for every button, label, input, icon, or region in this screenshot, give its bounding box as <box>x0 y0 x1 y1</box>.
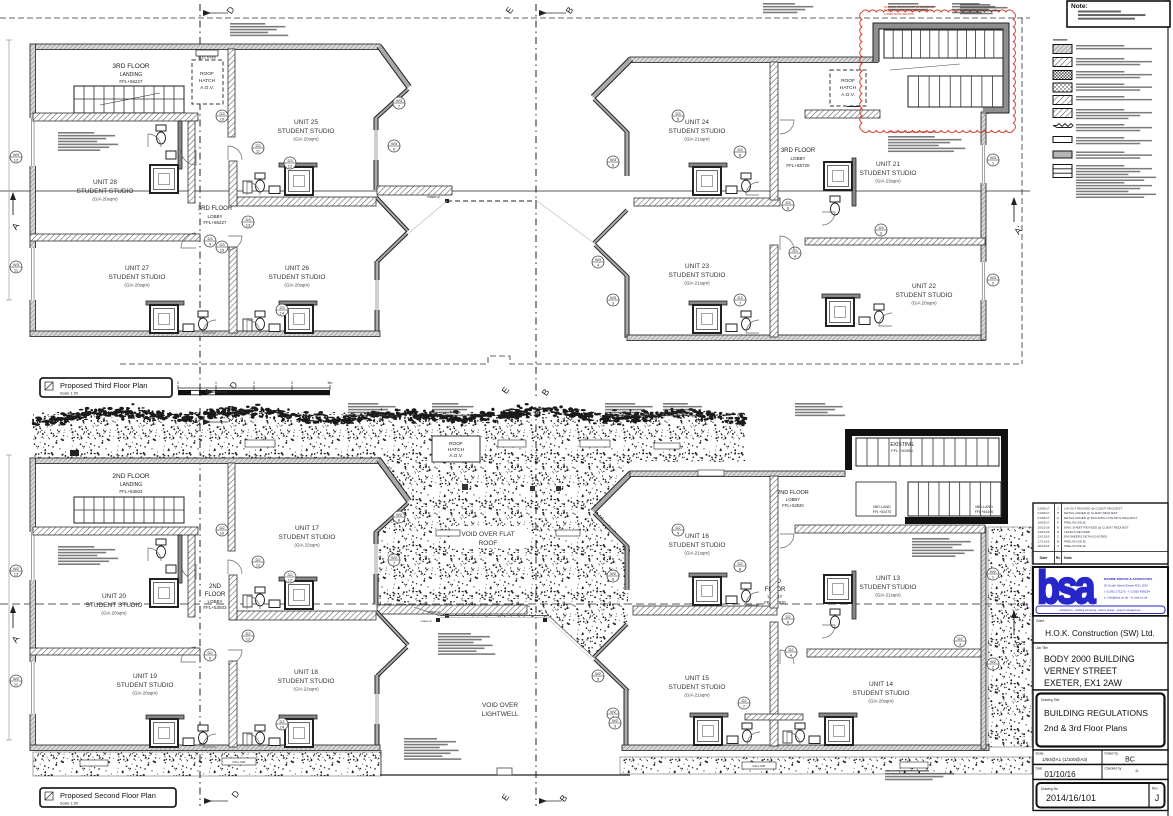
section marker A-prime right second floor <box>1013 611 1015 635</box>
3F units right wall hatched <box>770 62 778 200</box>
3F left block left wall <box>30 44 36 336</box>
logo panel box <box>1033 567 1168 616</box>
svg-text:D2: D2 <box>219 525 225 530</box>
svg-text:2ND FLOOR: 2ND FLOOR <box>777 490 809 496</box>
svg-text:LANDING: LANDING <box>120 72 142 78</box>
fall dir boxes top band <box>245 440 275 447</box>
legend text 2 <box>1076 58 1124 60</box>
svg-text:UNIT 27: UNIT 27 <box>125 265 149 272</box>
3F unit 27 pod <box>146 301 184 305</box>
3F stair enclosure stairs lower flight <box>908 76 1003 107</box>
svg-text:D2: D2 <box>737 561 743 566</box>
svg-text:HATCH: HATCH <box>448 447 465 453</box>
3F unit 26 pod <box>279 301 317 305</box>
svg-text:Scale 1:50: Scale 1:50 <box>60 802 78 806</box>
svg-text:2ND FLOOR: 2ND FLOOR <box>112 473 150 480</box>
2F unit 15 pod <box>690 713 728 717</box>
svg-text:DETAIL ADDED @ CLIENT REQUEST: DETAIL ADDED @ CLIENT REQUEST <box>1064 511 1118 515</box>
legend swatch 1 <box>1053 45 1072 54</box>
3F riser wall bottom segment <box>229 247 237 333</box>
legend swatch 9 <box>1053 151 1072 158</box>
svg-text:STUDENT STUDIO: STUDENT STUDIO <box>860 584 917 591</box>
2F stipple band right side <box>988 527 1032 747</box>
section marker A-prime right third floor <box>1013 198 1015 222</box>
3F lobby hatched wall below stair <box>805 110 880 118</box>
3F left wall window W3-12 <box>30 118 37 166</box>
svg-text:D3: D3 <box>207 236 213 241</box>
3F divider wall units 25-26 east part <box>231 197 376 206</box>
svg-text:HATCH: HATCH <box>840 85 857 91</box>
3F left block bottom wall <box>30 331 380 337</box>
svg-text:UNIT 26: UNIT 26 <box>285 265 309 272</box>
svg-text:STUDENT STUDIO: STUDENT STUDIO <box>86 602 143 609</box>
2F left wall window W2-14 <box>30 532 37 580</box>
3F stair enclosure outer wall <box>876 26 1006 114</box>
svg-text:(GIA 20sqm): (GIA 20sqm) <box>911 301 937 306</box>
3F stair landing <box>74 86 184 113</box>
svg-text:PRELIM ISSUE: PRELIM ISSUE <box>1064 521 1086 525</box>
svg-text:Note: Note <box>1064 556 1072 560</box>
3F right block bottom wall <box>627 335 985 341</box>
svg-text:01/03/17: 01/03/17 <box>1037 516 1049 520</box>
2F circles right block <box>782 613 794 625</box>
svg-text:W3: W3 <box>610 295 617 300</box>
3F annotation stair note <box>58 132 94 134</box>
2F lightwell timber up marks <box>436 618 440 622</box>
2F left wall window W2-13 <box>30 662 37 714</box>
legend text 8 <box>1076 137 1124 139</box>
svg-text:ROOF: ROOF <box>449 441 463 447</box>
3F stair arrow <box>100 93 160 105</box>
legend trailing paragraph <box>1076 182 1124 184</box>
legend swatch 5 <box>1053 96 1072 105</box>
svg-text:UNIT 23: UNIT 23 <box>685 263 709 270</box>
svg-text:UNIT 22: UNIT 22 <box>912 283 936 290</box>
legend swatch 2 <box>1053 58 1072 67</box>
3F unit 21 pod <box>852 158 856 206</box>
svg-text:UNIT 28: UNIT 28 <box>93 179 117 186</box>
svg-text:UNIT 14: UNIT 14 <box>869 681 893 688</box>
svg-text:Date: Date <box>1036 767 1043 771</box>
2F roof hatch AOV box in band <box>432 436 480 462</box>
2F lightwell bottom boundary line <box>380 774 630 776</box>
svg-text:LEVELS REVISED: LEVELS REVISED <box>1064 530 1091 534</box>
3F lobby west wall <box>188 121 195 203</box>
job title section <box>1033 643 1168 690</box>
svg-text:Rv: Rv <box>1056 556 1061 560</box>
2F stipple band bottom right <box>620 757 1032 774</box>
2F lobby west wall <box>188 535 195 617</box>
svg-text:STUDENT STUDIO: STUDENT STUDIO <box>109 274 166 281</box>
svg-text:D2: D2 <box>788 647 794 652</box>
2F left block top wall <box>30 458 380 464</box>
svg-text:Rev: Rev <box>1152 787 1158 791</box>
svg-text:STUDENT STUDIO: STUDENT STUDIO <box>669 272 726 279</box>
svg-text:STUDENT STUDIO: STUDENT STUDIO <box>278 678 335 685</box>
2F left block bay point lower <box>376 611 408 645</box>
3F roof hatch AOV dashed box <box>192 60 223 104</box>
3F right block left bay upper return <box>594 99 628 133</box>
2F wavy dense existing roof band <box>32 403 748 426</box>
svg-text:FFL+56227: FFL+56227 <box>203 220 227 225</box>
third floor plan title box <box>40 378 172 397</box>
2F flat roof annotation bottom <box>404 738 437 740</box>
2F parapet spur wall at section line <box>377 605 527 614</box>
svg-text:PRELIM ISSUE: PRELIM ISSUE <box>1064 539 1086 543</box>
svg-text:FFL+52620: FFL+52620 <box>782 503 804 508</box>
legend text 6 <box>1076 109 1124 111</box>
2F existing stair block heavy walls <box>845 429 1008 524</box>
2F unit 17 pod <box>279 577 317 581</box>
svg-text:0: 0 <box>177 381 179 385</box>
svg-text:12: 12 <box>288 578 293 583</box>
svg-text:A.O.V.: A.O.V. <box>841 92 855 98</box>
svg-text:D3: D3 <box>737 147 743 152</box>
svg-text:BODY 2000 BUILDING: BODY 2000 BUILDING <box>1044 654 1135 664</box>
svg-text:D2: D2 <box>279 719 285 724</box>
2F annotation stair note <box>58 546 94 548</box>
2F window on right wall upper <box>374 544 379 574</box>
2F lobby unit entry door arcs <box>181 564 196 579</box>
svg-text:MID-LAND: MID-LAND <box>975 505 993 509</box>
dashed site boundary top <box>0 17 1030 19</box>
svg-text:e. info@bsa.co.uk - w. bsa.co.: e. info@bsa.co.uk - w. bsa.co.uk <box>1104 596 1148 600</box>
2F unit 18 pod <box>279 715 317 719</box>
svg-text:2: 2 <box>253 381 255 385</box>
svg-text:FFL+55720: FFL+55720 <box>786 163 810 168</box>
svg-text:DETAIL ADDED @ BUILDING CONTRO: DETAIL ADDED @ BUILDING CONTROL REQUEST <box>1064 516 1137 520</box>
3F door circle D3-15 <box>216 241 228 253</box>
left margin dimension line second floor <box>8 455 10 740</box>
3F window circle W3-6 <box>388 140 400 152</box>
svg-text:08/11/16: 08/11/16 <box>1038 544 1050 548</box>
second floor plan title box <box>40 788 176 807</box>
svg-text:W2: W2 <box>13 566 20 571</box>
svg-text:W3: W3 <box>610 157 617 162</box>
3F left block top wall <box>30 44 380 50</box>
legend key title <box>1053 39 1067 41</box>
svg-text:UNIT 25: UNIT 25 <box>294 119 318 126</box>
svg-text:W3: W3 <box>396 98 403 103</box>
svg-text:PROPOSED EUROMATIC BETWEEN: PROPOSED EUROMATIC BETWEEN <box>888 130 936 134</box>
sheet right border <box>1167 0 1169 816</box>
drawing title rounded box <box>1037 694 1165 747</box>
svg-text:Drawing No.: Drawing No. <box>1041 787 1059 791</box>
svg-text:FALL DIR: FALL DIR <box>753 764 767 768</box>
2F lightwell glazing diagonals <box>549 616 628 689</box>
svg-text:EXETER, EX1 2AW: EXETER, EX1 2AW <box>1044 678 1123 688</box>
2F window on right wall lower <box>375 694 380 724</box>
2F divider wall units 17-18 east part <box>231 611 376 620</box>
legend text 7 <box>1076 124 1124 126</box>
svg-text:ELEC RISER: ELEC RISER <box>198 56 217 60</box>
3F revision cloud around stair <box>860 10 1016 132</box>
legend text 10 <box>1076 165 1124 167</box>
3F divider wall units 27-28 <box>30 234 200 241</box>
svg-text:23/03/17: 23/03/17 <box>1037 507 1049 511</box>
grid line D (third floor) <box>199 4 201 400</box>
svg-text:W2: W2 <box>610 709 617 714</box>
3F door circle D3-9 <box>204 235 216 247</box>
svg-text:architecture - building survey: architecture - building surveying - inte… <box>1059 608 1140 612</box>
svg-text:BUILDING REGULATIONS: BUILDING REGULATIONS <box>1044 708 1148 718</box>
section line A-A third floor <box>0 190 1030 192</box>
2F stair landing <box>74 497 184 523</box>
svg-text:16/01/17: 16/01/17 <box>1037 521 1049 525</box>
3F unit 25 pod <box>279 163 317 167</box>
svg-text:Job Title: Job Title <box>1036 646 1048 650</box>
svg-text:H: H <box>1057 511 1059 515</box>
3F right block left bay lower point <box>594 210 627 243</box>
svg-text:UNIT 17: UNIT 17 <box>295 525 319 532</box>
2F right block top wall <box>630 471 845 477</box>
3F roof hatch right dashed box <box>830 70 866 106</box>
2F riser wall <box>228 463 235 551</box>
3F void dashed edge <box>447 200 537 202</box>
svg-text:A.O.V.: A.O.V. <box>200 85 214 91</box>
2F existing stair steps <box>856 438 999 466</box>
scale and drawn row <box>1033 750 1168 765</box>
svg-text:1: 1 <box>215 381 217 385</box>
svg-text:(GIA 23sqm): (GIA 23sqm) <box>875 179 901 184</box>
svg-text:FFL +51950: FFL +51950 <box>891 448 913 453</box>
2F right block right wall <box>981 527 986 749</box>
svg-text:14: 14 <box>280 725 285 730</box>
svg-text:01/10/16: 01/10/16 <box>1044 770 1076 779</box>
svg-text:D3: D3 <box>287 158 293 163</box>
svg-text:D2: D2 <box>675 525 681 530</box>
legend swatch 3 <box>1053 71 1072 80</box>
2F landing lower wall hatched <box>33 527 198 535</box>
2F left block right wall mid <box>374 532 378 604</box>
svg-text:Client: Client <box>1036 619 1044 623</box>
svg-text:FLOOR: FLOOR <box>205 592 226 598</box>
legend swatch 10 <box>1053 165 1072 178</box>
svg-text:Drawn by: Drawn by <box>1105 752 1119 756</box>
note box top right <box>1067 1 1170 27</box>
svg-text:Drawing Title: Drawing Title <box>1041 698 1060 702</box>
svg-text:23/11/16: 23/11/16 <box>1038 535 1050 539</box>
svg-text:LOBBY: LOBBY <box>207 599 222 604</box>
legend swatch 8 <box>1053 137 1072 143</box>
2F annotation stair red note <box>912 538 949 540</box>
svg-text:(GIA 21sqm): (GIA 21sqm) <box>875 593 901 598</box>
svg-text:D3: D3 <box>785 200 791 205</box>
svg-text:21/03/17: 21/03/17 <box>1037 511 1049 515</box>
svg-text:(GIA 21sqm): (GIA 21sqm) <box>684 137 710 142</box>
svg-text:W2: W2 <box>990 569 997 574</box>
svg-text:FALL DIR: FALL DIR <box>233 760 247 764</box>
svg-text:VERNEY STREET: VERNEY STREET <box>1044 666 1118 676</box>
client section <box>1033 616 1168 643</box>
section marker A left third floor <box>12 193 14 215</box>
2F stipple band bottom left <box>33 752 381 776</box>
3F stair up arrow <box>890 64 960 70</box>
3F door circle D3-10 <box>216 110 228 122</box>
3F unit 28 shower extra <box>304 154 306 156</box>
2F right block left bay upper west wall <box>593 473 631 511</box>
svg-text:2ND: 2ND <box>209 584 222 590</box>
svg-text:W3: W3 <box>990 275 997 280</box>
3F divider wall units 24-23 <box>634 198 780 206</box>
2F abutment annotation bottom right <box>885 770 929 772</box>
svg-text:W3: W3 <box>990 155 997 160</box>
svg-text:17/11/16: 17/11/16 <box>1038 539 1050 543</box>
svg-text:FFL+53503: FFL+53503 <box>119 489 143 494</box>
svg-text:3: 3 <box>291 381 293 385</box>
2F right lobby entry door arcs <box>780 534 794 548</box>
svg-text:UNIT 18: UNIT 18 <box>294 669 318 676</box>
svg-text:STUDENT STUDIO: STUDENT STUDIO <box>669 684 726 691</box>
svg-text:D2: D2 <box>245 631 251 636</box>
revision table <box>1033 503 1168 564</box>
scale bar <box>178 387 330 389</box>
svg-text:50 South Street Exeter EX1 1DN: 50 South Street Exeter EX1 1DN <box>1104 584 1148 588</box>
svg-text:13: 13 <box>246 223 251 228</box>
2F riser wall lower segment <box>229 575 237 620</box>
2F left block bay return upper <box>375 503 408 533</box>
svg-text:ROOF: ROOF <box>841 78 855 84</box>
svg-text:W2: W2 <box>610 571 617 576</box>
3F window circle W3-11 <box>10 261 22 273</box>
svg-text:W2: W2 <box>13 676 20 681</box>
2F lobby hatched wall below stair <box>795 525 985 533</box>
svg-text:D3: D3 <box>255 143 261 148</box>
3F units right wall hatched lower <box>770 245 778 337</box>
2F divider wall units 13-14 <box>807 649 981 657</box>
svg-text:F: F <box>1057 521 1059 525</box>
svg-text:W2: W2 <box>990 659 997 664</box>
2F right block left bay upper return <box>594 513 628 547</box>
svg-text:W3: W3 <box>13 262 20 267</box>
svg-text:t. 01392 271173 - f. 01392 438: t. 01392 271173 - f. 01392 438234 <box>1104 590 1150 594</box>
2F flat roof stipple band top <box>33 412 745 690</box>
svg-text:LANDING: LANDING <box>120 482 142 488</box>
3F lobby unit entry door arcs <box>181 150 196 165</box>
svg-text:Note:: Note: <box>1071 3 1088 10</box>
svg-text:Scale: Scale <box>1036 752 1044 756</box>
svg-text:HATCH: HATCH <box>199 78 216 84</box>
2F left block bottom wall <box>30 745 380 751</box>
svg-text:H.O.K. Construction (SW) Ltd.: H.O.K. Construction (SW) Ltd. <box>1045 629 1155 638</box>
svg-text:(GIA 20sqm): (GIA 20sqm) <box>132 691 158 696</box>
3F red note annotation right <box>960 4 990 6</box>
section marker A left second floor <box>12 606 14 628</box>
3F unit 28 pod <box>178 121 182 169</box>
svg-text:FFL+53503: FFL+53503 <box>203 605 227 610</box>
3F window circle W3-5 <box>607 156 619 168</box>
legend swatch 4 <box>1053 83 1072 92</box>
svg-text:FFL+54190: FFL+54190 <box>975 510 993 514</box>
3F right block left wall low <box>625 276 629 338</box>
svg-text:FFL+52470: FFL+52470 <box>873 510 891 514</box>
svg-text:3RD FLOOR: 3RD FLOOR <box>198 206 233 212</box>
svg-text:LAYOUT REVISED @ CLIENT REQUES: LAYOUT REVISED @ CLIENT REQUEST <box>1064 507 1122 511</box>
svg-text:Proposed Third Floor Plan: Proposed Third Floor Plan <box>60 381 147 390</box>
3F electric riser box <box>196 50 218 56</box>
svg-text:TIMBER UP: TIMBER UP <box>420 621 432 623</box>
3F stair elec box <box>847 101 860 107</box>
legend text 3 <box>1076 71 1124 73</box>
svg-text:(GIA 22sqm): (GIA 22sqm) <box>293 687 319 692</box>
3F riser wall lower segment <box>229 161 237 206</box>
svg-text:MID-LAND: MID-LAND <box>873 505 891 509</box>
grid line E-B (second floor) <box>535 408 537 806</box>
svg-text:13: 13 <box>14 572 19 577</box>
drawing title outer section <box>1033 690 1168 750</box>
3F left block right wall lower <box>375 261 379 334</box>
svg-text:W3: W3 <box>13 152 20 157</box>
svg-text:D3: D3 <box>675 111 681 116</box>
svg-text:D2: D2 <box>741 698 747 703</box>
legend swatch 6 <box>1053 109 1072 118</box>
svg-text:J: J <box>1155 793 1160 803</box>
legend text 1 <box>1076 45 1124 47</box>
svg-text:STUDENT STUDIO: STUDENT STUDIO <box>853 690 910 697</box>
3F left block top-right angled bay wall <box>379 46 409 87</box>
svg-text:(GIA 21sqm): (GIA 21sqm) <box>684 551 710 556</box>
svg-text:W3: W3 <box>595 257 602 262</box>
svg-text:FFL+56227: FFL+56227 <box>119 79 143 84</box>
2F left block bay upper <box>379 460 409 501</box>
3F window circle W3-12 <box>10 151 22 163</box>
svg-text:(GIA 20sqm): (GIA 20sqm) <box>293 137 319 142</box>
3F unit 24 pod <box>689 163 727 167</box>
left margin dimension line third floor <box>8 40 10 300</box>
3F right block left bay lower return <box>595 245 628 277</box>
svg-text:B: B <box>1057 539 1059 543</box>
3F window circle W3-3 <box>607 294 619 306</box>
2F left block bay return lower <box>377 647 407 676</box>
svg-text:BARRIE BISCOE & ASSOCIATES: BARRIE BISCOE & ASSOCIATES <box>1104 577 1152 581</box>
svg-text:UNIT 21: UNIT 21 <box>876 161 900 168</box>
svg-text:D3: D3 <box>219 242 225 247</box>
2F right block left wall mid <box>625 546 629 590</box>
2F divider wall units 20-19 <box>30 648 200 655</box>
svg-text:(GIA 20sqm): (GIA 20sqm) <box>284 283 310 288</box>
svg-text:UNIT 16: UNIT 16 <box>685 533 709 540</box>
svg-text:12: 12 <box>288 164 293 169</box>
2F right block bottom wall <box>622 745 989 751</box>
svg-text:(GIA 20sqm): (GIA 20sqm) <box>124 283 150 288</box>
svg-text:STUDENT STUDIO: STUDENT STUDIO <box>669 542 726 549</box>
3F stair enclosure stairs upper flight <box>884 30 1003 58</box>
3F right block left bay upper west wall <box>593 59 631 97</box>
section line A-A second floor <box>0 603 1030 605</box>
fall dir boxes bottom-right band <box>742 762 776 769</box>
3F window on right wall lower <box>375 280 380 310</box>
2F elec box above wall <box>70 450 79 456</box>
3F right block left wall mid <box>625 132 629 176</box>
3F left block right wall upper <box>374 118 378 190</box>
grid line E-B (third floor) <box>535 4 537 400</box>
3F unit 23 pod <box>689 301 727 305</box>
svg-text:UNIT 24: UNIT 24 <box>685 119 709 126</box>
svg-text:3RD FLOOR: 3RD FLOOR <box>781 148 816 154</box>
svg-text:D3: D3 <box>878 225 884 230</box>
svg-text:D3: D3 <box>737 295 743 300</box>
svg-text:10: 10 <box>220 117 225 122</box>
2F right block left bay lower point <box>594 624 627 657</box>
svg-text:UNIT 19: UNIT 19 <box>133 673 157 680</box>
2F right block left bay lower return <box>595 659 628 691</box>
svg-text:PRELIM ISSUE: PRELIM ISSUE <box>1064 544 1086 548</box>
3F parapet spur wall at section line <box>377 186 452 195</box>
svg-text:5m: 5m <box>328 381 333 385</box>
svg-text:STUDENT STUDIO: STUDENT STUDIO <box>77 188 134 195</box>
3F riser wall <box>228 49 235 137</box>
svg-text:13: 13 <box>246 637 251 642</box>
